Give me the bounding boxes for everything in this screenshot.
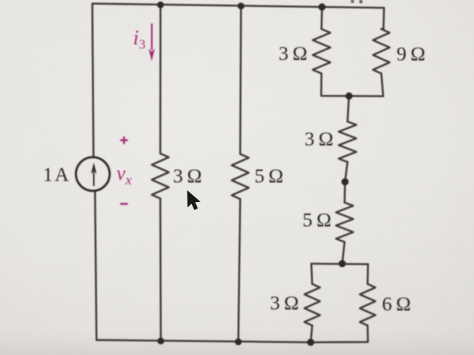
- svg-text:9 Ω: 9 Ω: [397, 44, 426, 66]
- svg-text:3 Ω: 3 Ω: [173, 166, 202, 188]
- svg-text:6 Ω: 6 Ω: [382, 294, 411, 316]
- svg-text:3 Ω: 3 Ω: [279, 43, 308, 65]
- svg-text:3: 3: [139, 37, 146, 52]
- svg-text:x: x: [125, 173, 133, 188]
- svg-text:3 Ω: 3 Ω: [305, 129, 334, 151]
- svg-text:A: A: [55, 165, 69, 186]
- svg-text:1: 1: [43, 165, 53, 186]
- svg-text:3 Ω: 3 Ω: [270, 292, 299, 314]
- svg-text:5 Ω: 5 Ω: [303, 209, 332, 231]
- svg-text:5 Ω: 5 Ω: [255, 166, 284, 188]
- svg-text:v: v: [117, 163, 126, 185]
